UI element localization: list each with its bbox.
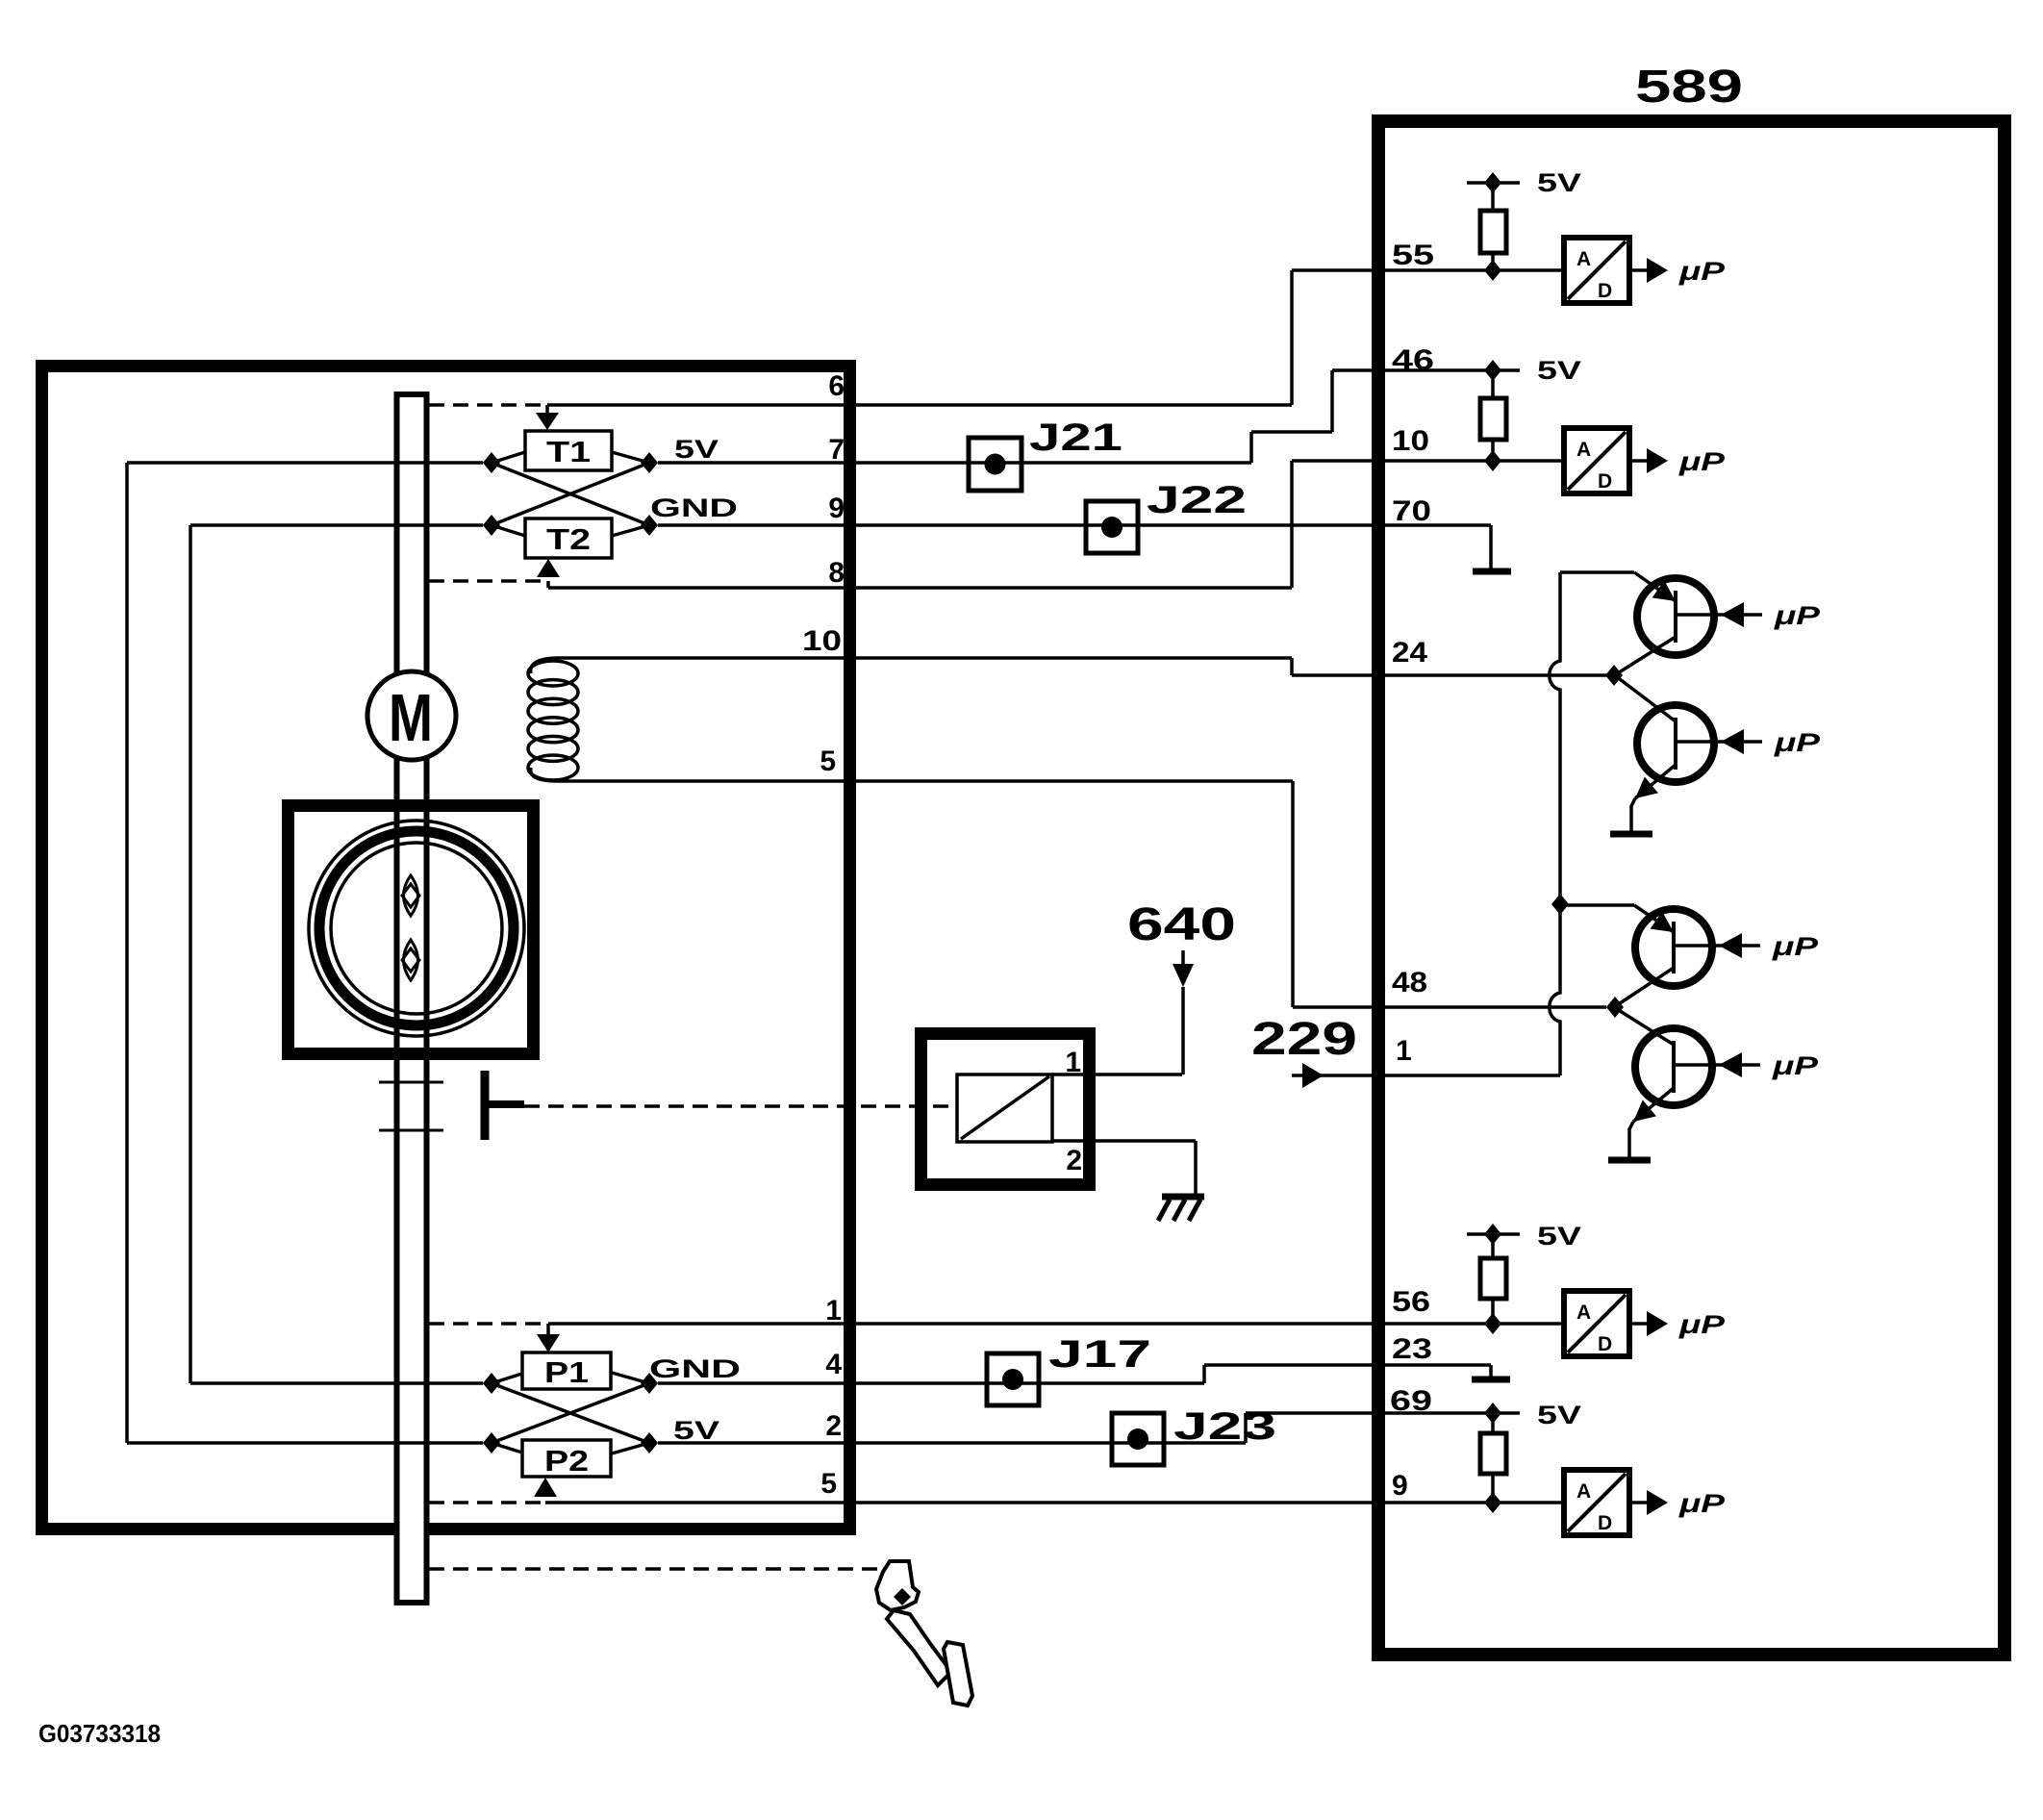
svg-text:589: 589 [1635,62,1743,113]
svg-text:5V: 5V [674,435,719,464]
svg-text:7: 7 [828,434,845,466]
svg-text:8: 8 [828,557,845,589]
svg-text:229: 229 [1251,1014,1357,1065]
svg-text:5V: 5V [1537,168,1581,197]
svg-text:D: D [1598,280,1612,302]
svg-text:5V: 5V [1537,1401,1581,1429]
svg-text:J23: J23 [1173,1405,1276,1448]
svg-text:46: 46 [1392,344,1434,376]
svg-text:A: A [1576,1302,1591,1324]
svg-text:μP: μP [1678,1310,1727,1339]
svg-text:24: 24 [1392,637,1427,669]
svg-text:μP: μP [1774,601,1822,630]
svg-text:μP: μP [1678,1489,1727,1518]
svg-text:M: M [389,680,433,755]
svg-text:μP: μP [1772,1051,1820,1080]
svg-text:A: A [1576,439,1591,461]
svg-text:D: D [1598,1333,1612,1355]
svg-text:70: 70 [1392,495,1431,527]
svg-text:4: 4 [825,1349,842,1380]
svg-text:56: 56 [1392,1286,1430,1318]
svg-text:A: A [1576,1480,1591,1503]
svg-text:μP: μP [1678,447,1727,476]
svg-text:T2: T2 [546,522,591,556]
svg-text:μP: μP [1772,932,1820,961]
svg-text:69: 69 [1390,1385,1432,1417]
svg-text:9: 9 [828,493,845,524]
svg-text:23: 23 [1392,1333,1432,1365]
svg-text:T1: T1 [546,435,591,468]
svg-text:D: D [1598,1512,1612,1534]
svg-text:2: 2 [825,1410,842,1442]
svg-text:6: 6 [828,370,845,402]
svg-text:J17: J17 [1048,1333,1151,1376]
svg-text:9: 9 [1392,1470,1408,1502]
svg-text:G03733318: G03733318 [38,1719,161,1748]
svg-text:2: 2 [1066,1145,1082,1176]
svg-text:48: 48 [1392,967,1427,998]
svg-text:A: A [1576,248,1591,270]
svg-text:10: 10 [802,625,842,657]
svg-text:GND: GND [649,1354,741,1383]
svg-text:5V: 5V [1537,1222,1581,1251]
svg-text:640: 640 [1127,899,1236,950]
svg-text:10: 10 [1392,425,1429,457]
svg-text:5: 5 [820,1468,837,1500]
svg-text:1: 1 [825,1295,842,1327]
svg-text:μP: μP [1774,728,1822,757]
svg-text:P1: P1 [544,1355,589,1389]
svg-text:GND: GND [650,493,738,522]
svg-text:5V: 5V [673,1416,719,1445]
svg-text:1: 1 [1396,1035,1412,1067]
svg-text:J21: J21 [1029,417,1122,459]
svg-text:D: D [1598,470,1612,493]
svg-text:J22: J22 [1147,479,1247,521]
svg-text:5: 5 [820,746,836,777]
svg-text:5V: 5V [1537,356,1581,385]
svg-text:55: 55 [1392,240,1434,271]
svg-text:P2: P2 [544,1444,589,1478]
svg-text:μP: μP [1678,257,1727,286]
